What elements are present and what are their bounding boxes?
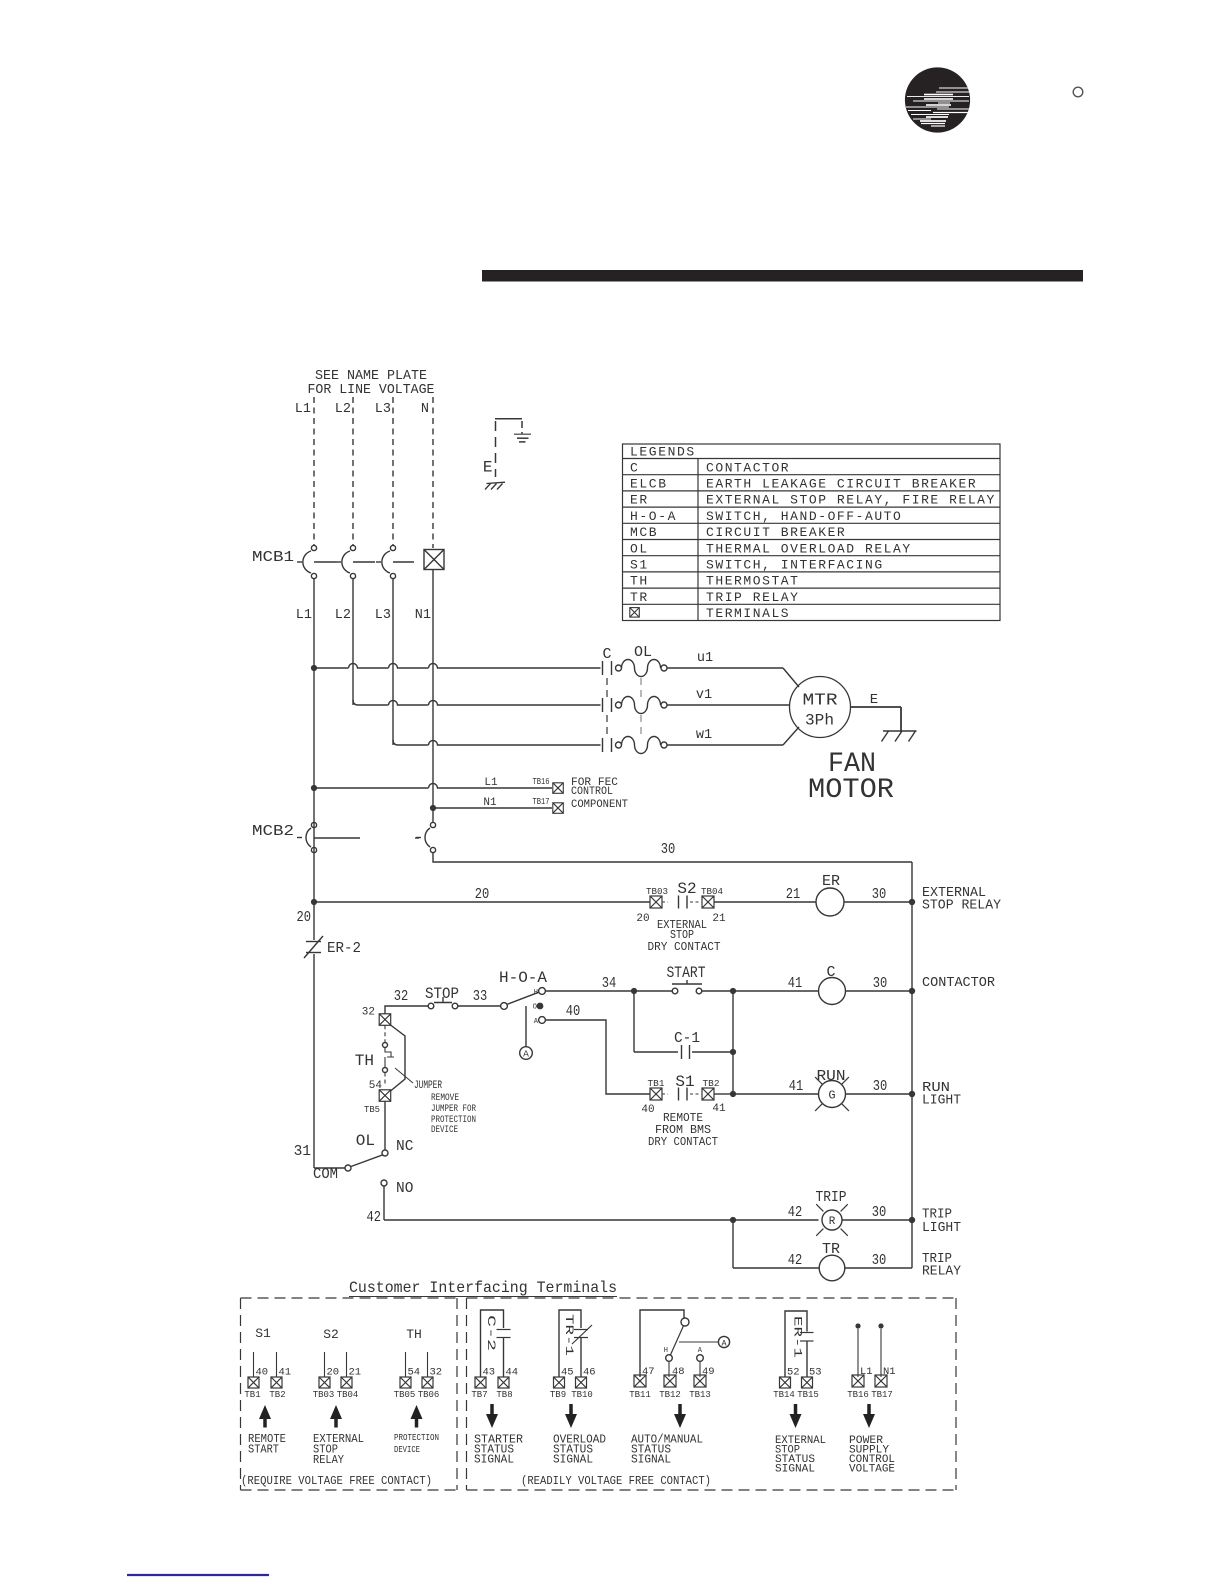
svg-text:u1: u1 [697,651,713,666]
svg-text:w1: w1 [696,728,712,743]
svg-text:S1: S1 [630,558,649,573]
svg-text:34: 34 [602,976,617,992]
svg-text:L1: L1 [296,608,312,623]
svg-text:SIGNAL: SIGNAL [631,1453,671,1467]
svg-text:L3: L3 [375,402,391,417]
svg-text:STOP RELAY: STOP RELAY [922,898,1002,914]
svg-text:TRIP RELAY: TRIP RELAY [706,590,800,605]
svg-text:OL: OL [634,644,652,661]
svg-text:LIGHT: LIGHT [922,1093,961,1109]
svg-text:THERMOSTAT: THERMOSTAT [706,574,800,589]
svg-text:REMOVE: REMOVE [431,1093,459,1104]
svg-text:THERMAL OVERLOAD RELAY: THERMAL OVERLOAD RELAY [706,541,912,556]
svg-text:30: 30 [873,976,888,992]
svg-text:JUMPER: JUMPER [414,1080,442,1092]
svg-text:TB03: TB03 [313,1390,335,1400]
svg-text:DRY CONTACT: DRY CONTACT [648,940,721,954]
svg-text:G: G [828,1089,835,1103]
svg-text:40: 40 [566,1004,581,1020]
svg-text:NO: NO [396,1181,413,1197]
svg-text:TB2: TB2 [269,1390,285,1400]
svg-text:EARTH LEAKAGE CIRCUIT BREAKER: EARTH LEAKAGE CIRCUIT BREAKER [706,477,977,492]
svg-text:32: 32 [394,989,409,1005]
svg-text:30: 30 [873,1079,888,1095]
svg-text:MOTOR: MOTOR [808,775,894,806]
svg-text:RUN: RUN [817,1068,846,1085]
svg-text:ER: ER [630,493,649,508]
svg-text:C-2: C-2 [484,1315,496,1351]
svg-text:Customer Interfacing Terminals: Customer Interfacing Terminals [349,1279,617,1297]
svg-text:42: 42 [788,1205,803,1221]
svg-text:41: 41 [789,1079,804,1095]
svg-text:H: H [534,989,538,997]
svg-text:C: C [602,646,611,663]
svg-text:MCB: MCB [630,525,658,540]
svg-text:TB14: TB14 [773,1390,795,1400]
svg-text:FOR LINE VOLTAGE: FOR LINE VOLTAGE [308,383,435,398]
svg-text:L2: L2 [335,402,351,417]
svg-text:TRIP: TRIP [816,1189,847,1206]
svg-text:E: E [870,692,878,708]
svg-text:TB10: TB10 [571,1390,593,1400]
svg-text:A: A [698,1347,703,1355]
svg-text:OL: OL [630,541,649,556]
svg-text:N1: N1 [483,797,497,809]
svg-text:MCB2: MCB2 [252,823,294,840]
svg-text:53: 53 [809,1367,822,1379]
svg-text:20: 20 [297,910,312,926]
svg-text:40: 40 [256,1367,269,1379]
svg-text:S1: S1 [255,1326,271,1341]
svg-text:32: 32 [430,1367,443,1379]
svg-text:TH: TH [355,1052,374,1070]
svg-text:PROTECTION: PROTECTION [394,1432,439,1443]
svg-text:54: 54 [408,1367,421,1379]
svg-text:TB2: TB2 [703,1079,720,1089]
svg-text:TB13: TB13 [689,1390,711,1400]
svg-text:41: 41 [788,976,803,992]
svg-text:EXTERNAL STOP RELAY, FIRE RELA: EXTERNAL STOP RELAY, FIRE RELAY [706,493,996,508]
svg-text:21: 21 [786,887,801,903]
svg-text:20: 20 [636,913,649,925]
svg-text:TERMINALS: TERMINALS [706,606,790,621]
svg-text:41: 41 [279,1367,292,1379]
svg-text:TB17: TB17 [871,1390,893,1400]
svg-text:41: 41 [712,1103,726,1115]
svg-text:LIGHT: LIGHT [922,1220,961,1236]
svg-text:RELAY: RELAY [922,1264,962,1280]
svg-text:H-O-A: H-O-A [499,969,547,987]
svg-text:CONTACTOR: CONTACTOR [706,460,790,475]
svg-text:MTR: MTR [803,692,838,711]
svg-text:33: 33 [473,989,488,1005]
svg-text:C: C [826,964,835,981]
svg-text:L1: L1 [295,402,311,417]
svg-text:TB16: TB16 [533,777,550,787]
svg-text:SIGNAL: SIGNAL [775,1464,815,1476]
svg-text:ER-1: ER-1 [791,1316,803,1359]
svg-text:(READILY VOLTAGE FREE CONTACT): (READILY VOLTAGE FREE CONTACT) [521,1475,711,1488]
svg-text:ER: ER [822,873,840,890]
svg-text:TR: TR [630,590,649,605]
svg-text:L2: L2 [335,608,351,623]
svg-text:TB12: TB12 [659,1390,681,1400]
svg-text:JUMPER FOR: JUMPER FOR [431,1104,476,1115]
svg-text:S2: S2 [677,880,696,898]
svg-text:S2: S2 [323,1327,339,1342]
svg-text:TB04: TB04 [701,887,723,897]
svg-text:SWITCH, HAND-OFF-AUTO: SWITCH, HAND-OFF-AUTO [706,509,902,524]
svg-text:A: A [721,1339,727,1349]
svg-text:H: H [664,1347,668,1355]
svg-text:21: 21 [349,1367,362,1379]
svg-text:20: 20 [475,887,490,903]
svg-text:ELCB: ELCB [630,477,668,492]
svg-text:52: 52 [787,1367,800,1379]
svg-text:E: E [483,459,493,477]
svg-text:DEVICE: DEVICE [394,1444,420,1455]
svg-text:TB1: TB1 [244,1390,260,1400]
svg-text:3Ph: 3Ph [805,712,834,730]
svg-text:30: 30 [872,1205,887,1221]
svg-text:TB16: TB16 [847,1390,869,1400]
svg-text:TB9: TB9 [550,1390,566,1400]
svg-text:OL: OL [356,1132,375,1150]
svg-text:N: N [421,402,429,417]
svg-text:NC: NC [396,1139,414,1155]
svg-text:N1: N1 [883,1366,896,1378]
svg-text:C-1: C-1 [674,1030,700,1047]
svg-text:TB15: TB15 [797,1390,819,1400]
svg-text:A: A [523,1049,529,1060]
svg-text:CONTACTOR: CONTACTOR [922,975,996,991]
svg-text:SIGNAL: SIGNAL [474,1453,514,1467]
svg-text:48: 48 [672,1366,685,1378]
svg-text:TB04: TB04 [337,1390,359,1400]
svg-text:L3: L3 [375,608,391,623]
svg-text:L1: L1 [860,1366,873,1378]
svg-text:DRY CONTACT: DRY CONTACT [648,1135,718,1149]
svg-text:MCB1: MCB1 [252,549,294,566]
svg-text:VOLTAGE: VOLTAGE [849,1464,895,1476]
svg-text:ER-2: ER-2 [327,940,361,957]
svg-text:TH: TH [630,574,649,589]
svg-text:44: 44 [506,1367,519,1379]
svg-text:20: 20 [327,1367,340,1379]
svg-text:TR-1: TR-1 [562,1314,574,1357]
svg-text:L1: L1 [484,777,498,789]
svg-text:R: R [829,1216,836,1228]
svg-text:21: 21 [712,913,726,925]
svg-text:45: 45 [561,1367,574,1379]
svg-text:LEGENDS: LEGENDS [630,445,696,460]
svg-text:TB05: TB05 [394,1390,416,1400]
svg-text:31: 31 [294,1144,311,1160]
svg-text:RELAY: RELAY [313,1453,344,1467]
svg-text:42: 42 [788,1253,803,1269]
svg-text:TB8: TB8 [496,1390,512,1400]
svg-text:47: 47 [642,1366,655,1378]
svg-text:CIRCUIT BREAKER: CIRCUIT BREAKER [706,525,846,540]
svg-text:40: 40 [641,1104,654,1116]
svg-text:TR: TR [822,1241,840,1258]
svg-text:SWITCH, INTERFACING: SWITCH, INTERFACING [706,558,884,573]
svg-text:43: 43 [483,1367,496,1379]
svg-text:32: 32 [362,1007,375,1019]
svg-text:30: 30 [661,842,676,858]
svg-text:DEVICE: DEVICE [431,1125,458,1136]
svg-text:46: 46 [583,1367,596,1379]
svg-text:COMPONENT: COMPONENT [571,799,628,811]
svg-text:42: 42 [367,1210,382,1226]
svg-text:TH: TH [406,1327,422,1342]
svg-text:COM: COM [313,1167,338,1183]
svg-text:SIGNAL: SIGNAL [553,1453,593,1467]
svg-text:30: 30 [872,1253,887,1269]
svg-text:START: START [667,964,706,982]
svg-text:H-O-A: H-O-A [630,509,677,524]
svg-text:STOP: STOP [425,985,459,1003]
svg-text:C: C [630,460,639,475]
svg-text:START: START [248,1443,279,1457]
svg-text:v1: v1 [696,688,712,703]
svg-text:49: 49 [702,1366,715,1378]
svg-text:CONTROL: CONTROL [571,786,613,798]
svg-text:TB11: TB11 [629,1390,651,1400]
svg-text:TB5: TB5 [364,1105,380,1115]
svg-text:TB7: TB7 [471,1390,487,1400]
svg-text:30: 30 [872,887,887,903]
svg-text:O: O [533,1004,537,1012]
svg-text:(REQUIRE VOLTAGE FREE CONTACT): (REQUIRE VOLTAGE FREE CONTACT) [241,1475,432,1488]
svg-text:SEE NAME PLATE: SEE NAME PLATE [315,369,427,384]
svg-text:TB06: TB06 [418,1390,440,1400]
svg-text:N1: N1 [415,608,431,623]
svg-text:TB17: TB17 [533,797,550,807]
svg-text:S1: S1 [675,1073,694,1091]
